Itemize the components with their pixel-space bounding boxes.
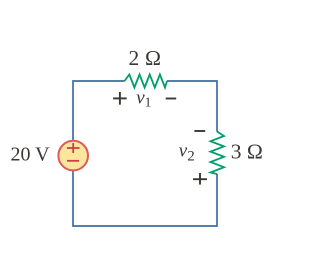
wire top-right corner segment — [167, 81, 217, 132]
voltage source plus terminal mark — [67, 143, 80, 153]
voltage source minus terminal mark — [67, 160, 79, 162]
resistor R1 2-ohm zigzag — [125, 75, 168, 88]
voltage source VS 20V circle — [58, 141, 88, 171]
node plus sign of v1 — [113, 92, 127, 105]
resistor R2 3-ohm zigzag — [211, 132, 225, 175]
node minus sign of v2 — [194, 130, 205, 132]
wire top-left corner segment — [73, 81, 125, 141]
node plus sign of v2 — [193, 173, 207, 185]
node minus sign of v1 — [166, 98, 177, 100]
wire bottom loop segment — [73, 170, 217, 226]
svg-text:3 Ω: 3 Ω — [231, 140, 263, 164]
svg-text:2 Ω: 2 Ω — [129, 46, 162, 70]
svg-text:20 V: 20 V — [11, 144, 51, 166]
